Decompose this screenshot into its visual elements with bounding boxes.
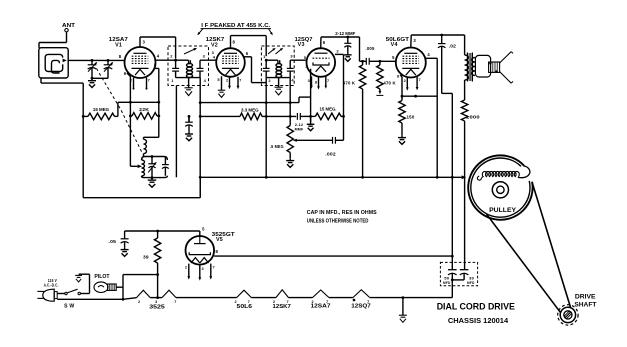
svg-text:1000: 1000 (466, 114, 480, 120)
wire oscillator grid top link (130, 101, 158, 103)
wire T2 primary-bottom drop (node B2) (265, 78, 267, 178)
ground oscillator tank (151, 178, 153, 181)
wire heater to 50L6 (176, 297, 237, 299)
wire T1 bottom (176, 77, 200, 79)
svg-text:2: 2 (185, 265, 187, 269)
IF transformer T1 (dashed can) (168, 46, 209, 86)
output transformer T4 primary (465, 55, 469, 80)
svg-text:7: 7 (239, 78, 241, 82)
pin stubs V5 bottom (188, 264, 190, 277)
svg-text:DIAL CORD DRIVE: DIAL CORD DRIVE (437, 300, 515, 311)
loop antenna L1 (39, 48, 68, 78)
svg-text:MFD: MFD (467, 281, 475, 285)
svg-text:.005: .005 (366, 46, 375, 51)
ground T2 (278, 78, 280, 88)
wire left AVC rail (82, 83, 84, 198)
spring hook to rim (518, 166, 530, 177)
svg-text:V5: V5 (216, 237, 223, 243)
wire V2 plate to IF2 primary (230, 36, 232, 49)
wire .02 return jog (442, 92, 453, 94)
wire V1 pin6 down to grid-leak line (127, 73, 131, 103)
pin 2 stub V2 (229, 77, 231, 86)
coil T1 primary (176, 59, 189, 61)
wire T2 bottom (266, 77, 290, 79)
heater 35Z5 section A (137, 290, 151, 297)
wire V4 pin4 / screen drop (425, 57, 437, 59)
wire pilot leads (116, 286, 123, 288)
ground T1 (188, 78, 190, 88)
svg-text:V2: V2 (211, 42, 218, 48)
wire V4 plate to output transformer (410, 35, 412, 48)
oscillator tank bottom wire (144, 176, 167, 178)
svg-text:3: 3 (308, 79, 310, 83)
svg-text:.02: .02 (449, 44, 457, 49)
svg-text:8: 8 (315, 80, 317, 84)
capacitor osc padder (164, 157, 166, 165)
wire V1 plate to IF1 primary top (139, 37, 141, 47)
wire T1 secondary return / screen rail drop (199, 78, 201, 198)
wire T2 secondary bottom to AVC divider (289, 78, 291, 126)
wire switch to chassis ground (80, 293, 89, 295)
svg-text:3.3 MEG: 3.3 MEG (241, 107, 259, 113)
drive shaft (558, 305, 578, 325)
wire osc plate vertical (158, 102, 160, 137)
trimmer arrow T1 (184, 49, 196, 54)
tube V1 12SA7 converter (125, 47, 156, 78)
wire V3 diode plate to detector load (335, 53, 344, 55)
pin 5 stub V2 to ground (221, 76, 223, 90)
wire heater to ground and filter (370, 297, 453, 299)
wire V1 pin5 down to oscillator line (154, 67, 159, 69)
tube V5 35Z5GT rectifier (186, 236, 215, 265)
pin 2 stub V1 (133, 78, 135, 89)
svg-text:PULLEY: PULLEY (489, 207, 516, 214)
pin 7 stub V1 (146, 78, 148, 89)
svg-text:.05: .05 (109, 239, 117, 244)
wire V3 plate to coupling network (320, 43, 322, 48)
speaker frame (475, 55, 490, 77)
svg-text:V3: V3 (298, 42, 305, 48)
svg-text:470 K: 470 K (383, 81, 396, 87)
svg-text:470 K: 470 K (343, 81, 356, 87)
svg-text:.5 MEG: .5 MEG (270, 144, 284, 150)
pin 7 stub V2 (237, 77, 239, 87)
variable capacitor osc trimmer (151, 157, 153, 164)
heater 12SK7 (276, 290, 289, 298)
capacitor T2 secondary trim (289, 60, 291, 68)
wire B- riser to filter caps (451, 283, 453, 297)
wire heater link 3 (329, 297, 353, 299)
svg-text:50L6GT: 50L6GT (386, 37, 410, 43)
variable capacitor C1b (oscillator section) (107, 60, 109, 64)
trimmer arrows T2 (268, 49, 275, 54)
svg-text:.002: .002 (325, 151, 336, 156)
wire gang cap common (92, 77, 108, 79)
coil T1 secondary (189, 60, 191, 63)
svg-text:15 MEG: 15 MEG (93, 107, 110, 113)
capacitor T2 primary trim (265, 59, 268, 62)
svg-text:MMF: MMF (295, 127, 304, 132)
heater 12SA7 (313, 290, 330, 298)
svg-text:150: 150 (407, 115, 415, 121)
wire osc grid vertical (129, 102, 131, 166)
wire V4 pin8 to cathode bottom (400, 75, 402, 77)
svg-text:7: 7 (174, 300, 176, 304)
svg-text:PILOT: PILOT (94, 274, 110, 280)
dial cord left run (487, 214, 561, 312)
svg-text:12SQ7: 12SQ7 (351, 303, 371, 309)
svg-text:12SA7: 12SA7 (311, 303, 331, 309)
tube V2 12SK7 IF amplifier (216, 48, 245, 77)
svg-text:UNLESS OTHERWISE NOTED: UNLESS OTHERWISE NOTED (307, 219, 369, 225)
svg-text:15 MEG.: 15 MEG. (320, 106, 337, 112)
svg-text:7: 7 (212, 265, 214, 269)
wiper arrow volume control (296, 139, 332, 141)
coil T2 primary (266, 59, 278, 61)
svg-text:50L6: 50L6 (237, 304, 253, 310)
svg-text:39: 39 (143, 255, 149, 261)
svg-text:2: 2 (404, 79, 406, 83)
filter capacitor block (dashed) (440, 262, 477, 285)
svg-text:3: 3 (155, 300, 157, 304)
wire V5 plate line (199, 231, 201, 236)
svg-text:SHAFT: SHAFT (574, 302, 596, 309)
oscillator coil T3 upper winding (143, 137, 145, 139)
capacitor C11 30 MFD (460, 269, 469, 271)
wire to V4 grid (380, 60, 396, 62)
wire osc tap arrow (130, 165, 137, 167)
wire B+ return corner (83, 197, 200, 199)
capacitor C10 50 MFD (448, 269, 457, 271)
wire T1 secondary top to V2 grid (200, 59, 216, 61)
ground gang capacitor (91, 78, 93, 80)
wire antenna lead-in (66, 32, 68, 43)
svg-text:V1: V1 (115, 42, 122, 48)
dial cord tension spring (481, 171, 519, 177)
speaker voice coil (489, 62, 500, 72)
wire V2 screen jog (244, 56, 252, 58)
capacitor C5 AVC bypass (188, 116, 190, 122)
svg-text:12SK7: 12SK7 (273, 304, 291, 310)
svg-text:A.C.-D.C.: A.C.-D.C. (44, 282, 59, 287)
svg-text:CAP IN MFD., RES IN OHMS: CAP IN MFD., RES IN OHMS (307, 210, 377, 216)
heater 50L6 (237, 290, 252, 297)
svg-text:S W: S W (64, 303, 74, 309)
svg-text:V4: V4 (391, 42, 398, 48)
pulley hub (492, 182, 508, 198)
svg-text:2-12 MMF: 2-12 MMF (335, 31, 355, 36)
wire T2 secondary top to V3 grid (290, 59, 307, 61)
capacitor T1 secondary trim (199, 60, 201, 68)
wire B+ bus (node B+) (200, 176, 462, 178)
pin stubs V3 bottom (311, 76, 313, 86)
output transformer core (466, 53, 468, 82)
heater 35Z5 section B (162, 290, 176, 297)
wire heater link 1 (251, 297, 276, 299)
wire cathode bottom link (402, 95, 437, 97)
coil T2 secondary (279, 60, 281, 63)
wire heater link 2 (289, 297, 313, 299)
pin 7 stub V4 (416, 77, 418, 88)
wire V5 cathode to filter caps (214, 255, 452, 257)
capacitor T1 primary trim (174, 59, 177, 62)
svg-text:3525: 3525 (149, 304, 165, 310)
IF transformer T2 (dashed can) (261, 46, 294, 86)
wire V1 pin4 to IF1 (155, 59, 175, 61)
svg-text:2: 2 (226, 78, 228, 82)
wire line bottom conductor (57, 298, 123, 300)
oscillator tank top wire (142, 157, 168, 161)
svg-text:CHASSIS 120014: CHASSIS 120014 (448, 316, 509, 325)
tube V4 50L6GT output (396, 48, 426, 78)
wire loop bottom to rail (40, 78, 42, 83)
pin 2 stub V4 (406, 77, 408, 88)
heater 12SQ7 (353, 290, 370, 298)
svg-text:3: 3 (201, 267, 203, 271)
svg-text:7: 7 (418, 78, 420, 82)
output transformer T4 secondary (472, 58, 475, 76)
speaker cone (500, 52, 512, 63)
svg-text:2: 2 (138, 300, 140, 304)
wire screen supply rail (200, 102, 299, 104)
wire T1 primary return (B+) (175, 86, 177, 178)
ground heater return (402, 298, 404, 316)
dashed gang line (tuning mechanical link) (97, 69, 143, 154)
wire screen feed vertical (451, 93, 453, 269)
dial cord right run (532, 182, 571, 308)
tube V3 12SQ7 det/AVC/audio (307, 48, 336, 77)
wire V3 pin4 drop to ground junction (310, 69, 312, 122)
svg-text:ANT: ANT (62, 23, 75, 29)
wire filter cap common (452, 279, 464, 281)
svg-text:DRIVE: DRIVE (575, 294, 596, 301)
svg-text:7: 7 (327, 79, 329, 83)
pulley (dial drive) (468, 155, 532, 219)
wire loop antenna to V1 grid (node G1) (68, 59, 125, 61)
ground detector junction (309, 115, 312, 118)
variable capacitor C1a (RF tuning, front section) (91, 60, 93, 64)
svg-text:MFD: MFD (443, 281, 451, 285)
wire heater tap (150, 297, 162, 299)
oscillator coil T3 tank winding (142, 160, 145, 176)
